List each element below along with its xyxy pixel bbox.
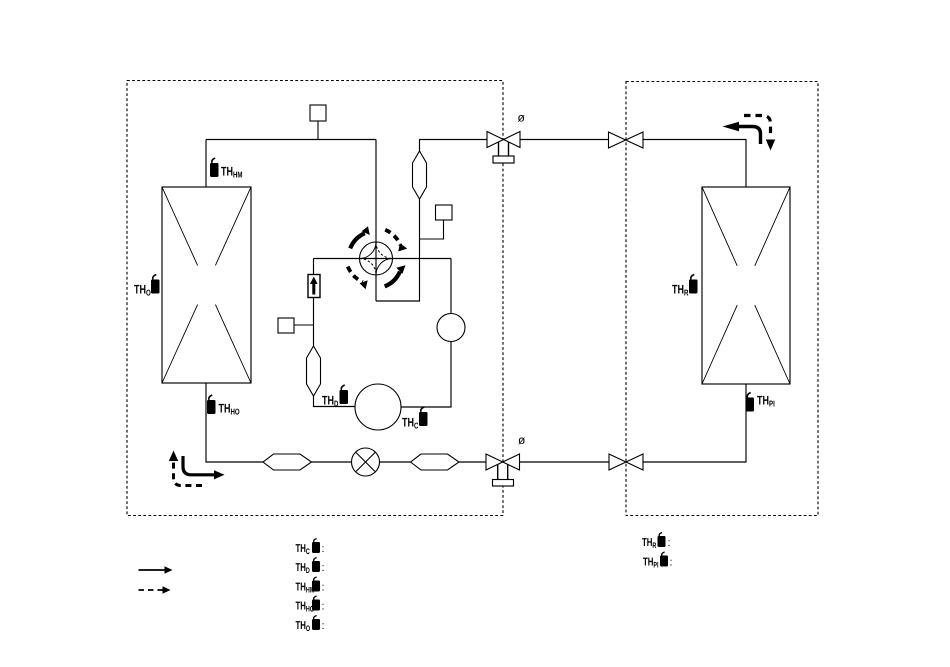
- strainer (right, liquid line): [411, 454, 460, 470]
- wire: 4-way valve right port down through oil separator to compressor: [401, 259, 451, 408]
- indoor flow arrow dashed (heating, pointing down): [744, 116, 775, 151]
- legend row THO: [296, 616, 325, 634]
- 4-way valve flow arrow solid lower-right: [385, 265, 406, 286]
- svg-text::: :: [668, 537, 671, 549]
- svg-text:THO: THO: [296, 620, 311, 633]
- wire: liquid line bottom run: [206, 383, 746, 462]
- legend solid flow arrow: [139, 566, 173, 573]
- label THHO: [219, 402, 240, 417]
- sensor THPI on HX2 bottom pipe: [746, 393, 755, 412]
- compressor: [355, 384, 401, 430]
- svg-text:THR: THR: [672, 283, 688, 298]
- svg-text:ø: ø: [518, 111, 526, 125]
- 4-way valve flow arrow solid upper-left: [350, 226, 370, 248]
- label THPI: [757, 394, 775, 409]
- legend row THPI: [643, 552, 673, 570]
- outdoor flow arrow dashed (pointing up): [169, 451, 202, 486]
- wire: stub to pressure sensor square on top header: [317, 121, 319, 140]
- expansion valve PMV: [352, 448, 380, 476]
- svg-text::: :: [322, 601, 325, 613]
- pressure sensor square (top header): [310, 105, 326, 121]
- packed valve (liquid line, indoor side): [609, 454, 643, 470]
- legend row THHO: [296, 596, 325, 614]
- svg-text:THHO: THHO: [219, 402, 240, 417]
- 4-way valve body: [360, 242, 393, 275]
- wire: gas line service valve to packed valve to HX2 top: [520, 140, 746, 188]
- heat exchanger HX1 (outdoor coil): [162, 187, 251, 383]
- legend row THC: [296, 539, 325, 557]
- sensor THO at HX1 side: [151, 275, 160, 294]
- wire: riser through 4-way valve down to discharge elbow: [375, 140, 377, 302]
- indoor unit dashed enclosure: [626, 82, 818, 516]
- legend row THR: [642, 533, 671, 551]
- svg-text:THHM: THHM: [296, 582, 315, 595]
- wire: discharge elbow from 4-way valve to muffler riser: [376, 140, 487, 302]
- pressure sensor square (suction line): [278, 318, 294, 333]
- service valve (liquid line): [486, 454, 520, 486]
- svg-text:ø: ø: [518, 433, 526, 447]
- sensor THHM on HX1 top pipe: [210, 158, 219, 177]
- label THC: [402, 416, 418, 431]
- svg-text:THO: THO: [134, 283, 151, 298]
- sensor THHO on HX1 bottom pipe: [207, 395, 216, 414]
- sensor THD at compressor suction: [340, 385, 349, 404]
- legend row THHM: [296, 577, 325, 595]
- legend row THD: [296, 558, 325, 576]
- svg-text::: :: [322, 543, 325, 555]
- pressure sensor square (discharge line): [436, 205, 453, 220]
- svg-text:THC: THC: [402, 416, 418, 431]
- wire: stub to pressure sensor square (suction): [294, 324, 314, 326]
- svg-text::: :: [322, 582, 325, 594]
- 4-way valve flow arrow dashed upper-right: [385, 230, 407, 252]
- svg-text:THD: THD: [296, 562, 311, 575]
- svg-text:THD: THD: [322, 394, 338, 409]
- svg-text:THPI: THPI: [643, 557, 659, 570]
- svg-text:THR: THR: [642, 537, 657, 550]
- accumulator (suction muffler): [307, 346, 321, 396]
- svg-text:THHO: THHO: [296, 601, 315, 614]
- 4-way valve flow arrow dashed lower-left: [348, 267, 368, 290]
- outdoor flow arrow solid (pointing right): [183, 456, 225, 479]
- discharge muffler: [413, 151, 427, 199]
- oil separator: [437, 314, 465, 342]
- legend dashed flow arrow: [139, 586, 171, 593]
- svg-text::: :: [322, 620, 325, 632]
- label THHM: [221, 165, 243, 180]
- wire: 4-way valve horizontal run: [314, 258, 452, 260]
- svg-text::: :: [322, 562, 325, 574]
- outdoor unit dashed enclosure: [127, 81, 503, 516]
- indoor flow arrow solid (cooling, pointing left): [723, 122, 761, 144]
- svg-text:THHM: THHM: [221, 165, 243, 180]
- check valve (suction line): [308, 275, 320, 298]
- svg-text:THC: THC: [296, 543, 311, 556]
- svg-text::: :: [670, 557, 673, 569]
- wire: suction line down through check valve and accumulator to compressor: [314, 259, 356, 407]
- label THR: [672, 283, 688, 298]
- packed valve (gas line, indoor side): [609, 132, 644, 148]
- label THO: [134, 283, 151, 298]
- label THD: [322, 394, 338, 409]
- sensor THC at compressor discharge: [419, 407, 428, 426]
- wire: stub to pressure sensor square (discharge): [420, 220, 444, 239]
- strainer (left, liquid line): [263, 454, 312, 470]
- wire: HX1 top to top header: [205, 140, 207, 188]
- sensor THR at HX2 side: [689, 275, 698, 294]
- service valve (gas line): [487, 132, 520, 164]
- wire: top header horizontal to 4-way valve riser: [206, 139, 376, 141]
- svg-text:THPI: THPI: [757, 394, 775, 409]
- heat exchanger HX2 (indoor coil): [702, 187, 790, 384]
